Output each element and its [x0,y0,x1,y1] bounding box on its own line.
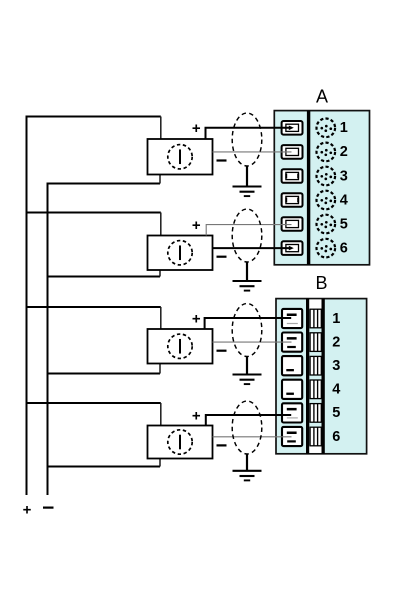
svg-text:+: + [23,501,32,518]
svg-text:A: A [316,87,328,107]
svg-text:5: 5 [340,216,348,232]
svg-text:+: + [192,217,201,234]
svg-text:1: 1 [340,120,348,136]
svg-text:5: 5 [332,405,340,421]
svg-text:3: 3 [332,358,340,374]
svg-text:3: 3 [340,168,348,184]
svg-text:+: + [192,310,201,327]
svg-text:2: 2 [332,334,340,350]
svg-text:2: 2 [340,144,348,160]
svg-text:6: 6 [332,429,340,445]
svg-text:+: + [192,120,201,137]
svg-text:4: 4 [340,192,348,208]
svg-text:1: 1 [332,311,340,327]
svg-text:+: + [192,407,201,424]
svg-text:B: B [315,273,327,293]
svg-text:6: 6 [340,240,348,256]
svg-text:4: 4 [332,382,340,398]
